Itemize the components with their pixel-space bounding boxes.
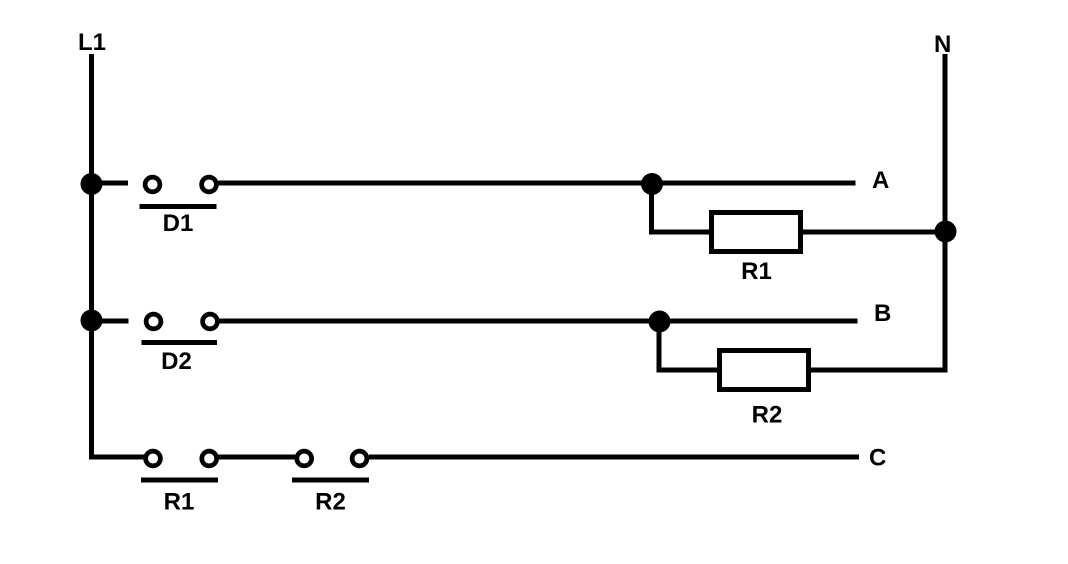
node junction dot L1/rung A xyxy=(81,173,103,195)
svg-text:R2: R2 xyxy=(752,402,783,429)
svg-text:C: C xyxy=(869,445,886,472)
svg-text:A: A xyxy=(872,167,889,194)
contact R1 right terminal (rung C) xyxy=(202,451,217,466)
contact D1 bar xyxy=(140,204,217,209)
wire rung A main xyxy=(218,181,855,186)
svg-text:L1: L1 xyxy=(78,29,106,56)
svg-text:D2: D2 xyxy=(161,348,192,375)
contact D1 left terminal xyxy=(145,177,160,192)
wire rung B main xyxy=(219,319,857,324)
contact D2 right terminal xyxy=(203,314,218,329)
svg-text:B: B xyxy=(874,300,891,327)
wire N bus (vertical right rail with corner into R2 output) xyxy=(808,54,945,370)
node junction dot rung B / R2 branch xyxy=(649,311,671,333)
wire rung C main xyxy=(369,455,859,460)
resistor R2 (rung B) body xyxy=(720,351,809,390)
wire R2 branch drop xyxy=(659,326,717,370)
node junction dot N/R1 xyxy=(935,221,957,243)
contact D1 right terminal xyxy=(202,177,217,192)
wire R1 output to N xyxy=(803,230,945,235)
node junction dot L1/rung B xyxy=(81,310,103,332)
svg-text:R1: R1 xyxy=(164,489,195,516)
wire rung B stub xyxy=(92,319,129,324)
wire R1 branch drop xyxy=(652,188,710,232)
node junction dot rung A / R1 branch xyxy=(641,173,663,195)
contact R2 left terminal (rung C) xyxy=(297,451,312,466)
contact R1 bar (rung C) xyxy=(141,478,218,483)
contact D2 bar xyxy=(142,340,218,345)
contact R2 bar (rung C) xyxy=(292,478,369,483)
contact R2 right terminal (rung C) xyxy=(352,451,367,466)
contact D2 left terminal xyxy=(146,314,161,329)
svg-text:N: N xyxy=(934,31,951,58)
svg-text:D1: D1 xyxy=(163,210,194,237)
contact R1 left terminal (rung C) xyxy=(146,451,161,466)
wire L1 bus (vertical left rail with corner into rung C) xyxy=(92,54,145,457)
svg-text:R2: R2 xyxy=(315,489,346,516)
wire rung C mid xyxy=(218,455,295,460)
wire rung A stub xyxy=(92,181,129,186)
resistor R1 (rung A) body xyxy=(712,213,801,252)
svg-text:R1: R1 xyxy=(741,258,772,285)
